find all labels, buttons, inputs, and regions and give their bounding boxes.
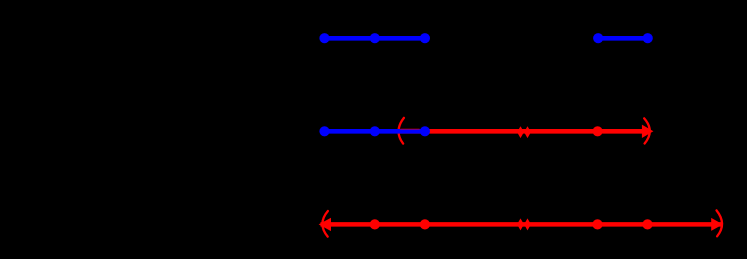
row 3: red break diamond left <box>517 218 524 230</box>
row 2: blue endpoint dot left <box>319 126 329 136</box>
row 1: endpoint dot at 2 <box>593 33 603 43</box>
row 2: blue dot middle <box>370 126 380 136</box>
row 2: red break diamond left <box>517 126 524 138</box>
row 3: red dot 3 <box>592 219 602 229</box>
row 2: red open interval line <box>399 129 646 134</box>
row 2: open parenthesis ( <box>399 118 404 144</box>
row 3: red union interval line <box>321 222 723 227</box>
row 2: close parenthesis ) <box>644 118 650 143</box>
row 3: left arrowhead <box>319 218 331 231</box>
row 2: blue endpoint dot right <box>420 126 430 136</box>
row 3: right arrowhead <box>711 218 723 231</box>
row 1: blue segment [-3,-1] <box>325 36 425 41</box>
row 3: red break diamond right <box>524 218 531 230</box>
row 2: red dot <box>593 126 603 136</box>
row 3: red dot 4 <box>642 219 652 229</box>
row 1: dot at -2 <box>370 33 380 43</box>
row 1: endpoint dot at -1 <box>420 33 430 43</box>
row 3: red dot 1 <box>370 219 380 229</box>
row 3: red dot 2 <box>420 219 430 229</box>
row 2: red break diamond right <box>524 126 531 138</box>
row 3: close parenthesis ) <box>717 210 723 236</box>
row 1: blue segment [2,3] <box>598 36 648 41</box>
row 3: open parenthesis ( <box>322 211 328 237</box>
row 2: red-under-blue purple fringe <box>400 128 419 130</box>
row 2: blue segment overlay <box>325 129 425 134</box>
row 2: right arrowhead <box>642 125 654 138</box>
row 1: endpoint dot at 3 <box>643 33 653 43</box>
row 1: endpoint dot at -3 <box>319 33 329 43</box>
